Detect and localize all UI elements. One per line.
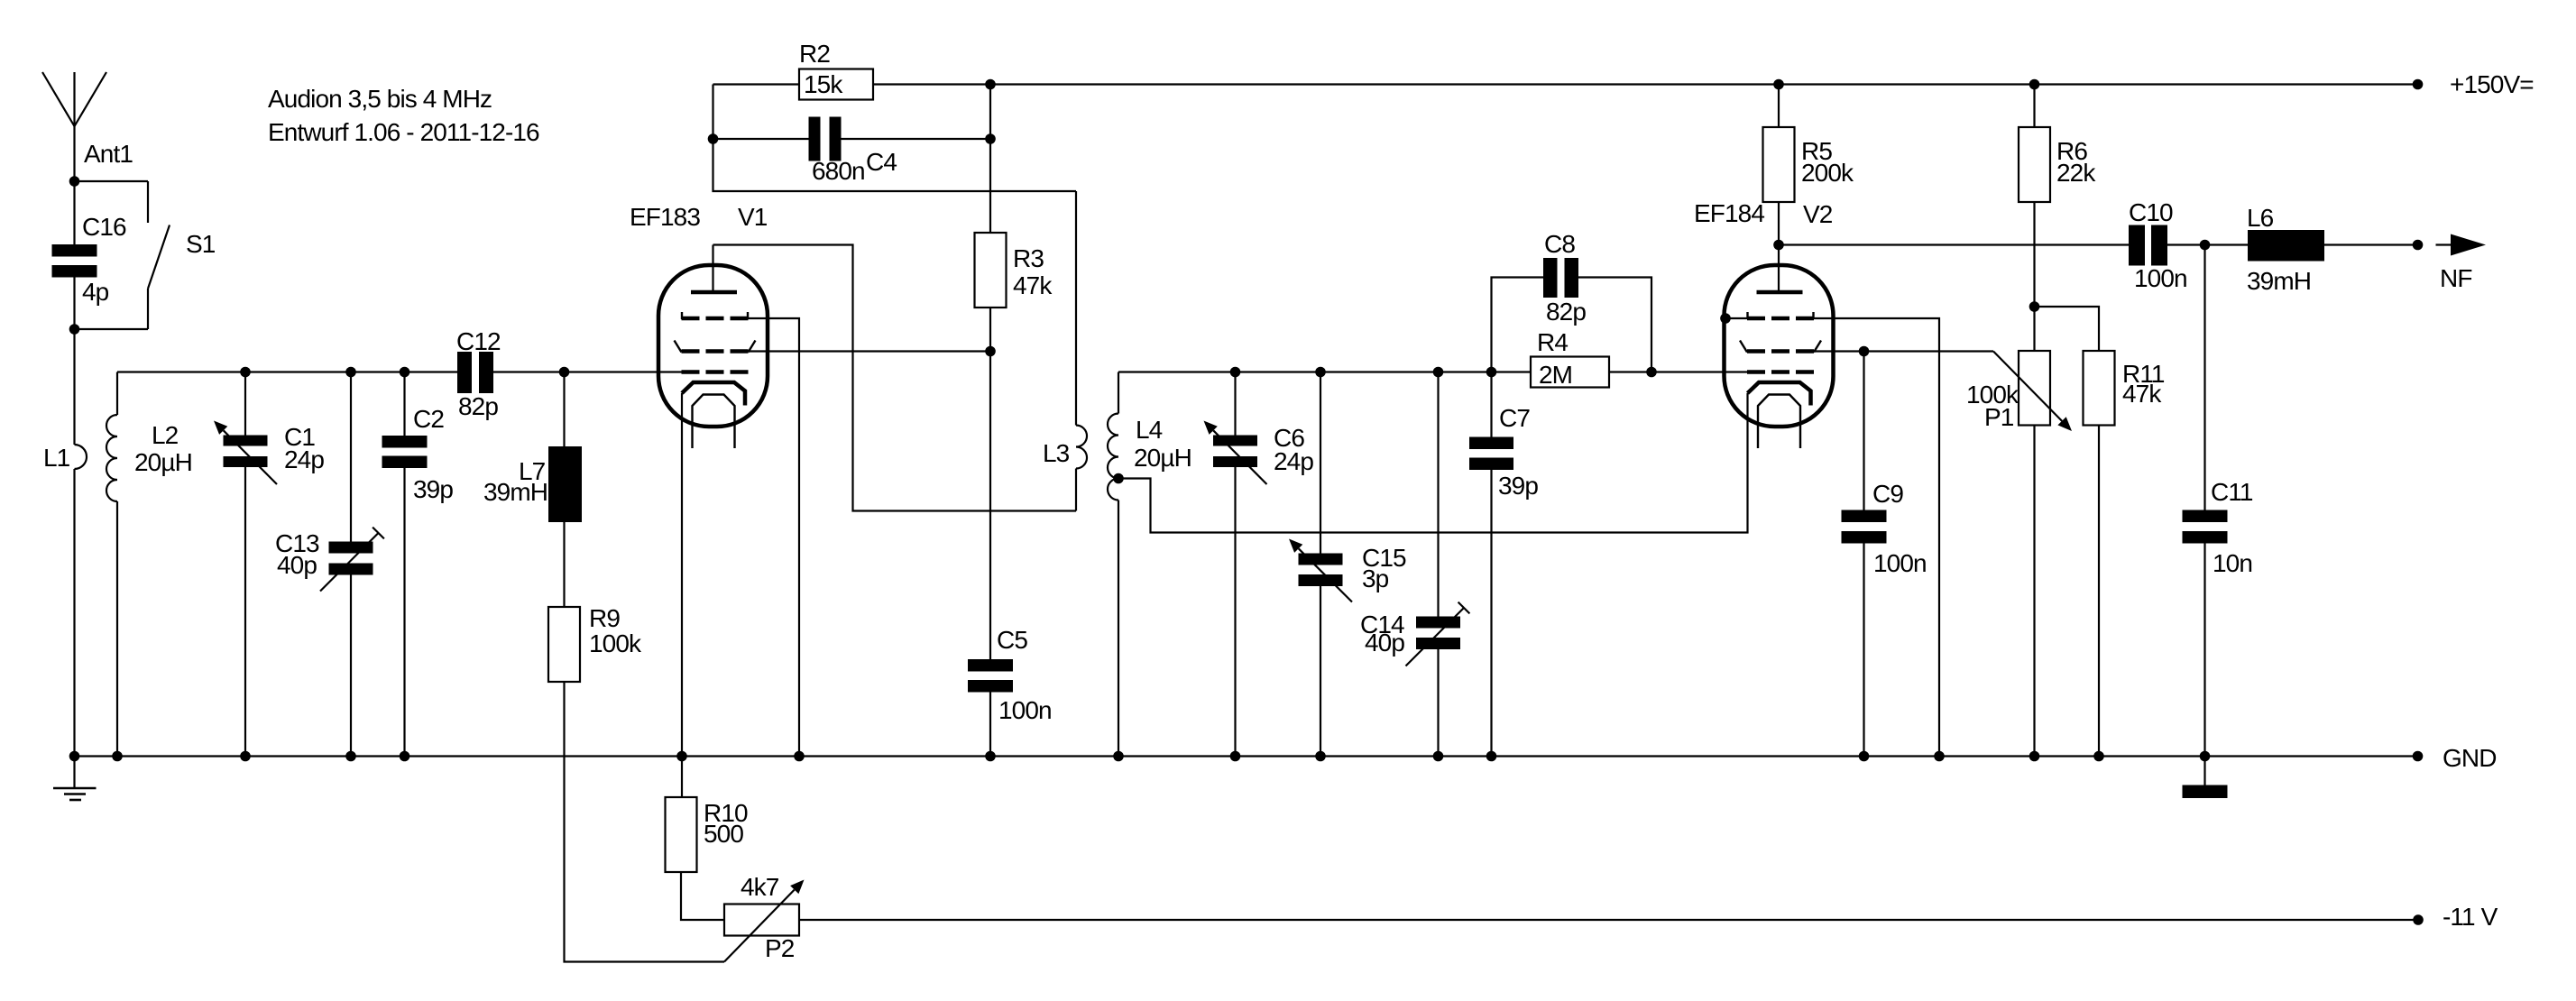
capacitor C2 39p	[382, 372, 454, 757]
capacitor C11 10n	[2183, 245, 2253, 757]
node grid bus C13	[345, 367, 356, 378]
wire L4 tap to V2 cathode	[1118, 393, 1748, 533]
svg-text:C7: C7	[1499, 404, 1530, 432]
node GND C11	[2200, 751, 2211, 762]
svg-text:R9: R9	[589, 604, 620, 632]
svg-text:500: 500	[704, 820, 743, 848]
svg-text:47k: 47k	[2122, 380, 2162, 408]
svg-text:22k: 22k	[2056, 159, 2096, 187]
wire R3 to g2 node	[989, 308, 991, 352]
node +150V terminal	[2413, 79, 2424, 90]
svg-text:20µH: 20µH	[134, 448, 192, 476]
svg-text:P1: P1	[1984, 403, 2014, 431]
wire V1 cathode to GND	[681, 393, 683, 757]
svg-text:L6: L6	[2247, 204, 2274, 232]
node -11V terminal	[2413, 914, 2424, 925]
node R3 / V1 g2 / C5	[985, 346, 996, 357]
svg-text:EF184: EF184	[1694, 199, 1764, 227]
node GND C7	[1486, 751, 1497, 762]
svg-text:GND: GND	[2443, 744, 2497, 772]
node GND C1	[240, 751, 251, 762]
wire V1 anode up and over to L3 bottom	[713, 245, 1077, 511]
svg-text:C16: C16	[82, 213, 126, 241]
potentiometer P1 wiper arrow	[1993, 352, 2072, 432]
capacitor C12 82p	[456, 327, 501, 420]
inductor L2 20uH	[106, 372, 192, 757]
node GND L2	[112, 751, 123, 762]
svg-text:40p: 40p	[277, 551, 317, 579]
capacitor C4 680n	[713, 117, 991, 186]
node C10/C11	[2200, 240, 2211, 251]
resistor R4 2M	[1531, 328, 1609, 389]
wire V2 g2 to P1 wiper	[1814, 350, 1993, 352]
node GND C9	[1859, 751, 1870, 762]
resistor R6 22k	[2019, 85, 2096, 203]
node GND terminal	[2413, 751, 2424, 762]
node GND C15	[1315, 751, 1326, 762]
node antenna/C16/S1 top	[69, 176, 80, 187]
node divider R6/P1/R11	[2029, 301, 2040, 312]
node GND V1 g3	[794, 751, 805, 762]
potentiometer P1 100k	[1966, 307, 2050, 757]
node grid bus C7/C8	[1486, 367, 1497, 378]
svg-text:47k: 47k	[1013, 271, 1053, 299]
capacitor C10 100n	[2129, 198, 2187, 292]
wire V1 g3 to GND	[749, 318, 800, 757]
svg-text:C8: C8	[1544, 230, 1575, 258]
wire P2 to -11V terminal	[799, 919, 2418, 921]
svg-text:C12: C12	[456, 327, 501, 355]
node grid bus C15	[1315, 367, 1326, 378]
svg-text:39mH: 39mH	[483, 478, 547, 506]
inductor L4 20uH	[1108, 372, 1191, 757]
resistor R11 47k	[2035, 307, 2165, 757]
svg-text:Audion 3,5 bis 4 MHz: Audion 3,5 bis 4 MHz	[268, 85, 492, 113]
svg-text:2M: 2M	[1539, 361, 1572, 389]
node V2 g3 envelope dot	[1720, 313, 1731, 324]
svg-text:L2: L2	[152, 421, 179, 449]
capacitor C7 39p	[1469, 372, 1538, 757]
svg-text:39p: 39p	[1498, 472, 1538, 500]
resistor R5 200k	[1763, 85, 1855, 203]
svg-text:24p: 24p	[284, 445, 324, 473]
resistor R3 47k	[975, 233, 1053, 308]
inductor L1	[43, 329, 87, 757]
wire V2 g3 left stub	[1725, 317, 1747, 319]
svg-text:15k: 15k	[804, 70, 843, 98]
node NF terminal	[2413, 240, 2424, 251]
svg-text:10n: 10n	[2213, 549, 2252, 577]
node C4 right	[985, 133, 996, 144]
wire anode bus to C10	[1779, 243, 2129, 245]
svg-text:Entwurf 1.06 - 2011-12-16: Entwurf 1.06 - 2011-12-16	[268, 118, 539, 146]
svg-text:3p: 3p	[1362, 565, 1389, 592]
resistor R10 500	[666, 757, 748, 873]
svg-text:C11: C11	[2211, 478, 2253, 506]
svg-text:R3: R3	[1013, 244, 1044, 272]
resistor R9 100k	[548, 604, 642, 682]
capacitor C6 24p variable	[1204, 372, 1314, 757]
svg-text:20µH: 20µH	[1134, 444, 1191, 472]
svg-text:C10: C10	[2129, 198, 2173, 226]
capacitor C15 3p variable	[1289, 372, 1406, 757]
wire grid bus right (R4 to V2 g1)	[1609, 371, 1747, 372]
node GND L4	[1113, 751, 1124, 762]
tube V2 EF184	[1694, 199, 1834, 448]
capacitor C13 40p trimmer	[275, 372, 384, 757]
node GND P1	[2029, 751, 2040, 762]
wire antenna node to C16	[73, 181, 75, 244]
svg-text:24p: 24p	[1274, 447, 1313, 475]
node C4 left	[708, 133, 719, 144]
svg-text:100n: 100n	[2134, 264, 2187, 292]
capacitor C9 100n	[1842, 352, 1927, 757]
svg-text:40p: 40p	[1365, 629, 1404, 657]
wire +150V bus	[873, 83, 2418, 85]
wire GND bus	[75, 755, 2418, 757]
node C16/S1 bottom	[69, 324, 80, 335]
wire bus to R2	[713, 83, 800, 85]
capacitor C1 24p variable	[214, 372, 324, 757]
svg-text:R4: R4	[1537, 328, 1568, 356]
node L4 tap	[1113, 473, 1124, 484]
capacitor C5 100n	[968, 352, 1052, 757]
switch S1	[75, 181, 216, 329]
wire R5 to anode node	[1778, 202, 1780, 245]
node +150V R6	[2029, 79, 2040, 90]
capacitor C14 40p trimmer	[1360, 372, 1469, 757]
capacitor C8 82p	[1492, 230, 1652, 372]
wire R3 feed	[989, 85, 991, 234]
node GND C2	[400, 751, 410, 762]
potentiometer P2 4k7	[724, 873, 799, 962]
NF output arrow	[2436, 234, 2487, 293]
node grid bus L7	[559, 367, 570, 378]
wire V2 g3 to GND	[1814, 318, 1939, 757]
svg-text:L3: L3	[1043, 439, 1070, 467]
node GND V2 g3	[1934, 751, 1945, 762]
inductor L6 39mH	[2247, 204, 2324, 295]
node +150V R3 tap	[985, 79, 996, 90]
svg-text:C9: C9	[1872, 480, 1903, 508]
wire grid bus left (L2 to C12)	[117, 371, 457, 372]
svg-text:R2: R2	[799, 40, 830, 68]
inductor L3	[1043, 191, 1087, 511]
svg-text:100n: 100n	[1873, 549, 1927, 577]
svg-text:S1: S1	[186, 230, 216, 258]
svg-text:+150V=: +150V=	[2450, 70, 2534, 98]
svg-text:100n: 100n	[998, 696, 1052, 724]
wire R9 to P2 wiper	[565, 682, 725, 962]
svg-text:-11 V: -11 V	[2443, 903, 2498, 931]
svg-text:V1: V1	[738, 203, 768, 231]
svg-text:EF183: EF183	[630, 203, 700, 231]
svg-text:V2: V2	[1803, 200, 1833, 228]
resistor R2 15k	[799, 40, 873, 100]
node GND C5	[985, 751, 996, 762]
node GND V1 cathode / R10	[676, 751, 687, 762]
node V2 anode	[1773, 240, 1784, 251]
wire grid bus left (C12 to V1 g1)	[493, 371, 682, 372]
capacitor C16 4p	[52, 213, 126, 306]
ground	[53, 757, 97, 801]
svg-text:680n: 680n	[812, 157, 865, 185]
svg-text:39mH: 39mH	[2247, 267, 2311, 295]
svg-text:4p: 4p	[82, 278, 109, 306]
node GND C14	[1433, 751, 1444, 762]
wire L7 to R9	[563, 522, 565, 607]
svg-text:82p: 82p	[1546, 298, 1586, 326]
svg-text:Ant1: Ant1	[84, 140, 133, 168]
wire V1 g2 to R3 node	[749, 350, 991, 352]
node +150V R5	[1773, 79, 1784, 90]
wire R10 to P2	[681, 872, 724, 920]
svg-text:C2: C2	[413, 405, 444, 433]
wire R6 to divider node	[2033, 202, 2035, 307]
svg-text:L4: L4	[1136, 416, 1163, 444]
antenna Ant1	[42, 72, 133, 181]
wire C16 to bottom node	[73, 278, 75, 330]
node GND C13	[345, 751, 356, 762]
potentiometer P2 wiper arrow	[724, 880, 805, 962]
node R4 right / C8 right	[1646, 367, 1657, 378]
svg-text:4k7: 4k7	[741, 873, 779, 901]
svg-text:L1: L1	[43, 444, 70, 472]
svg-text:100k: 100k	[589, 629, 642, 657]
node GND R11	[2093, 751, 2104, 762]
svg-text:82p: 82p	[458, 392, 498, 420]
node GND C6	[1230, 751, 1241, 762]
wire L6 to NF node	[2324, 243, 2418, 245]
svg-text:C5: C5	[997, 626, 1027, 654]
wire +150V corner to C4 node and L3 wire	[713, 85, 1077, 192]
svg-text:200k: 200k	[1801, 159, 1854, 187]
svg-text:39p: 39p	[413, 475, 453, 503]
svg-text:C4: C4	[866, 148, 897, 176]
node grid bus C2	[400, 367, 410, 378]
node grid bus C6	[1230, 367, 1241, 378]
wire C10 to L6	[2167, 243, 2248, 245]
node grid bus C14	[1433, 367, 1444, 378]
inductor L7 39mH	[483, 372, 582, 523]
tube V1 EF183	[630, 203, 768, 448]
svg-text:P2: P2	[765, 934, 795, 962]
node GND antenna leg	[69, 751, 80, 762]
node V2 g2 / C9	[1859, 346, 1870, 357]
svg-text:NF: NF	[2440, 264, 2472, 292]
wire grid bus right (L4 to R4)	[1118, 371, 1531, 372]
node grid bus C1	[240, 367, 251, 378]
chassis bar below C11	[2183, 757, 2228, 799]
